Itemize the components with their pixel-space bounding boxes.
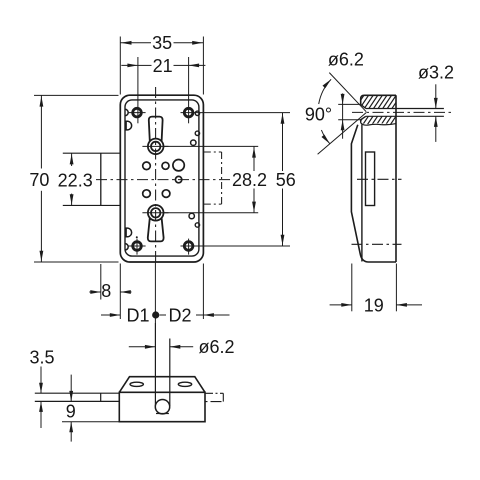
boss outline (361, 95, 396, 104)
left edge semicircle top (125, 109, 128, 115)
dim 35 extension right (202, 37, 204, 95)
svg-text:ø6.2: ø6.2 (328, 49, 364, 69)
dim dia6.2 side line (342, 93, 344, 138)
dim dia6.2 bottom shafts (129, 346, 156, 348)
edge hole right top (195, 111, 199, 115)
edge hole right mid (195, 131, 199, 135)
bottom view block (119, 392, 205, 421)
strike lip / 22.3 extension line bottom (63, 204, 121, 206)
boss break line (wavy) (361, 123, 396, 125)
small dot near lower D-notch (136, 236, 138, 238)
D-notch lower left (126, 228, 132, 237)
svg-text:8: 8 (101, 281, 111, 301)
dim dia6.2 side extension top (338, 103, 361, 105)
slot end circle (155, 400, 169, 414)
hole D (on centreline) (175, 176, 181, 182)
phantom bolt outline top (204, 151, 222, 153)
screw hole bottom-left (133, 242, 142, 251)
angle arc arrows (323, 79, 332, 88)
flange lip step (100, 393, 102, 401)
dim 56 arrows (281, 113, 285, 124)
centre mark screw top-left (129, 112, 146, 114)
phantom bolt outline right (221, 152, 223, 204)
dim 56 extension top (181, 112, 291, 114)
svg-text:19: 19 (364, 295, 384, 315)
angle leader line lower (318, 113, 367, 155)
dim 56 line (282, 113, 284, 171)
front view inner case plate (125, 100, 199, 256)
edge hole right low (195, 223, 199, 227)
phantom lip bottom view top (205, 392, 223, 394)
upper keyhole (149, 117, 163, 142)
cross hole top line (366, 108, 444, 110)
dim 9 arrows (69, 391, 73, 402)
dim 21 extension left (137, 57, 139, 123)
hole G (191, 140, 196, 145)
flange top line (35, 392, 120, 394)
dim D1 D2 arrows (110, 313, 121, 317)
phantom lip bottom view right (222, 393, 224, 401)
svg-text:56: 56 (276, 170, 296, 190)
dim 28.2 arrows (252, 147, 256, 158)
angle arc (319, 79, 331, 104)
flange bottom line (35, 400, 120, 402)
D-notch upper left (126, 121, 132, 130)
strike lip / 22.3 extension line top (63, 152, 121, 154)
dim dia3.2 shafts (435, 84, 437, 108)
hole F (162, 190, 170, 198)
dim 70 line (40, 95, 42, 168)
phantom bolt outline bottom (204, 203, 222, 205)
bottom view screw hole ellipse left (130, 382, 143, 386)
left strike lip (22.3 box) (100, 153, 102, 205)
slot line left (axis) (154, 323, 156, 406)
svg-text:ø6.2: ø6.2 (199, 337, 235, 357)
extension plate left edge below (119, 264, 121, 320)
side view left profile (351, 125, 396, 262)
dim 19 arrows (341, 303, 352, 307)
dim 28.2 extension bottom (164, 212, 259, 214)
dim dia6.2 side extension bottom (338, 119, 361, 121)
svg-text:3.5: 3.5 (29, 348, 54, 368)
side view upper centreline (357, 178, 402, 180)
hole C (large) (173, 160, 184, 171)
extension plate right edge below (202, 264, 204, 320)
dim 70 arrows (40, 96, 44, 107)
boss hatching lower (341, 85, 435, 130)
side view right edge (395, 95, 397, 262)
lower keyhole horizontal centre mark (142, 212, 168, 214)
dim 9 shafts (70, 375, 72, 402)
side view lower centreline (352, 243, 402, 245)
dim D1 D2 shafts (101, 314, 120, 316)
hole B (162, 162, 169, 169)
dim 8 lines (89, 291, 101, 293)
dim 8 arrows (90, 290, 101, 294)
upper keyhole horizontal centre mark (142, 145, 168, 147)
dim 3.5 shafts (40, 367, 42, 394)
slot line right (169, 339, 171, 407)
dim 21 line (138, 64, 152, 66)
angle leader line upper (329, 73, 366, 112)
centre mark screw bottom-right vertical (188, 239, 190, 255)
dim 56 extension bottom (181, 245, 291, 247)
side view slot rectangle (366, 152, 375, 206)
phantom lip bottom view bottom (206, 401, 224, 403)
svg-text:70: 70 (29, 170, 49, 190)
dim dia6.2 bottom arrows (145, 345, 156, 349)
left edge semicircle bottom (125, 244, 128, 250)
dim 70 extension bottom (34, 261, 119, 263)
dim 28.2 line (253, 146, 255, 171)
svg-text:9: 9 (66, 402, 76, 422)
node dot between D1 D2 (152, 311, 159, 318)
hole E (143, 190, 151, 198)
dim 19 extension left (351, 264, 353, 312)
svg-text:22.3: 22.3 (58, 170, 93, 190)
dim 19 extension right (395, 264, 397, 312)
svg-text:ø3.2: ø3.2 (418, 62, 454, 82)
side view inner plate line (361, 125, 363, 262)
svg-text:35: 35 (152, 33, 172, 53)
dim 3.5 arrows (39, 383, 43, 394)
bottom view screw hole ellipse right (178, 382, 191, 386)
cross hole centreline (352, 111, 454, 113)
bottom view chamfered top face (119, 377, 205, 393)
cross hole bottom line (366, 115, 444, 117)
dim 35 arrows (121, 41, 132, 45)
lower keyhole (148, 218, 164, 242)
screw hole top-left (133, 108, 142, 117)
dim 21 arrows (127, 64, 137, 68)
hole A (143, 162, 151, 170)
dim 70 extension top (34, 94, 119, 96)
dim 28.2 extension top (164, 145, 259, 147)
svg-text:90°: 90° (305, 104, 332, 124)
centre mark screw bottom-left vertical (136, 239, 138, 255)
horizontal centreline front view (96, 179, 232, 181)
svg-text:D2: D2 (168, 305, 191, 325)
vertical centreline front view (155, 87, 157, 262)
dim 35 line (120, 42, 151, 44)
dim 9 extension (62, 421, 119, 423)
boss hatching upper (341, 85, 435, 130)
dim 19 shafts (330, 304, 352, 306)
slot circle chord (156, 413, 169, 415)
dim 35 extension left (119, 37, 121, 95)
screw hole bottom-right (184, 242, 193, 251)
centre mark screw bottom-left (129, 245, 146, 247)
hole H (189, 213, 194, 218)
dim dia3.2 arrows (434, 98, 438, 109)
front view outer case plate (120, 95, 203, 262)
axis line below plate (154, 263, 156, 324)
screw hole top-right (184, 108, 193, 117)
dim 8 extension left (100, 264, 102, 300)
dim 22.3 line (71, 153, 73, 166)
dim 22.3 arrows (70, 154, 74, 165)
svg-text:28.2: 28.2 (232, 170, 267, 190)
dim 21 extension right (188, 57, 190, 123)
svg-text:21: 21 (153, 56, 173, 76)
svg-text:D1: D1 (126, 305, 149, 325)
dim dia6.2 side arrows (341, 94, 345, 105)
